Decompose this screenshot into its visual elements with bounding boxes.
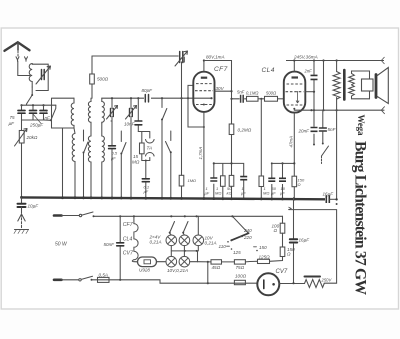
svg-text:45Ω: 45Ω [212,265,221,270]
svg-text:80pF: 80pF [142,88,154,93]
title [352,115,369,296]
5nF top-right chain [322,110,324,143]
svg-text:µF: µF [271,191,276,196]
potentiometer 20k [21,120,23,198]
electrolytic 10uF [18,204,26,207]
svg-text:250µF: 250µF [29,123,44,128]
bottom-left ground leg [14,198,29,234]
cap 80pF in rail [144,95,151,102]
switch S5 [166,131,171,199]
svg-text:47mA: 47mA [288,136,293,148]
svg-text:10V,0,21A: 10V,0,21A [167,268,188,273]
svg-text:20nF: 20nF [298,129,311,134]
svg-text:110: 110 [219,244,227,249]
TA pickup jacks [146,140,155,143]
speaker [362,79,374,91]
fuse 0,5A [98,277,110,282]
svg-text:16µF: 16µF [323,191,335,196]
switch S4 [162,98,167,198]
lamp La1 [166,235,177,246]
grid rail y=98 [102,97,212,99]
selector top chain [282,216,284,223]
svg-text:Wega: Wega [356,115,366,137]
svg-text:CL4: CL4 [262,67,275,74]
mains switch top [81,212,94,216]
mains switch bottom [80,276,93,280]
svg-text:kΩ: kΩ [227,191,232,196]
trimmer capacitor [42,70,45,80]
wave switch S1 [27,95,33,104]
grid leak jog [188,98,204,127]
resistor 150 ohm vertical [280,247,285,257]
CL4 grid drop [260,99,262,199]
transformer core [343,70,346,100]
svg-text:20kΩ: 20kΩ [26,135,38,140]
svg-text:500Ω: 500Ω [97,77,109,82]
resistor 500 ohm [90,74,95,84]
tube CL4 [284,72,306,113]
lamp links [171,246,184,257]
svg-text:U928: U928 [139,268,150,273]
lamp La3 [193,235,204,246]
svg-text:MΩ: MΩ [215,191,221,196]
wire B+ feed [323,61,325,111]
svg-text:16µF: 16µF [299,238,311,243]
svg-text:CF7: CF7 [123,222,134,228]
svg-text:245V,36mA: 245V,36mA [293,55,318,60]
svg-text:50 W: 50 W [55,242,68,248]
mains plug pin bottom [54,278,62,281]
svg-text:100Ω: 100Ω [235,274,247,279]
svg-text:MΩ: MΩ [132,160,140,165]
IF transformer coils [88,98,91,123]
svg-text:1: 1 [46,109,49,114]
svg-text:Ω: Ω [274,228,278,233]
capacitor 250uF [32,105,34,120]
svg-text:125: 125 [233,250,241,255]
line y163 right [283,162,295,164]
svg-text:10nF: 10nF [124,122,136,127]
node junctions on grid rail [111,97,113,99]
antenna coil L1 [29,64,32,88]
chassis arrow [21,214,23,228]
capacitor 0,1uF [145,161,147,199]
osc coil lower [72,128,75,199]
resistor 75 ohm [234,260,245,264]
wire B+ vertical to filter [336,110,338,199]
labels part 1 [9,77,154,141]
selector blade 240/220 [231,233,248,240]
ground bus [20,195,338,203]
16uF bus cap [326,195,329,203]
2nF cap chain [313,61,315,111]
dial lamps [166,235,204,267]
CF7 anode wire [203,61,205,72]
trimmer cap b [130,109,133,117]
secondary loop [349,71,370,85]
node row [22,104,56,105]
svg-text:10µF: 10µF [28,204,40,209]
capacitor 10uF cathode bypass [282,163,284,198]
resistor 1M grid leak [181,98,183,198]
antenna [5,42,30,51]
resistor 0,2MOhm [229,124,234,135]
wire rail to tuning cap [174,55,178,57]
labels part 2 [111,55,318,196]
screen wire [215,90,232,92]
CV7 rectifier [257,273,279,295]
heating resistor zigzag 250V [305,280,325,288]
resistor 15MOhm [140,143,145,154]
resistor 150 CL4 cathode [293,113,295,199]
padder switch [83,130,85,141]
shield rectangle [32,64,48,90]
svg-text:240: 240 [243,228,252,233]
svg-text:µF: µF [205,191,210,196]
resistor 1M cathode [222,163,224,198]
svg-text:75Ω: 75Ω [236,265,245,270]
CF7 grid wire [188,85,193,98]
trimmer cap a [111,109,114,117]
svg-text:TA: TA [147,146,153,151]
wire antenna to coil [18,61,29,76]
svg-text:80V,1mA: 80V,1mA [206,55,225,60]
electrolytic 50uF [271,163,273,198]
svg-text:220: 220 [243,235,252,240]
lamp switch a [170,222,175,236]
resistor 125 ohm [258,259,270,263]
svg-text:0,2MΩ: 0,2MΩ [238,128,252,133]
svg-text:µF: µF [280,191,285,196]
switch S3 [121,131,126,199]
resistor 100 ohm lower [234,280,245,284]
wire CF7 cathode to ground bus [203,112,205,199]
svg-text:µF: µF [144,189,149,194]
svg-text:CV7: CV7 [123,250,134,256]
svg-text:250V: 250V [321,278,333,283]
svg-text:5nF: 5nF [328,127,337,132]
capacitor 50nF across mains [119,216,121,279]
lamp La2 [179,235,190,246]
svg-text:µF: µF [111,156,116,161]
svg-text:2nF: 2nF [304,69,313,74]
svg-text:Ω: Ω [298,182,301,187]
svg-text:50nF: 50nF [104,242,116,247]
resistor 0,1MOhm [247,96,259,101]
svg-text:0,21A: 0,21A [150,240,162,245]
mains section [54,212,283,284]
svg-text:1,7mA: 1,7mA [198,147,203,160]
TA / 15M branch top [138,132,150,144]
capacitor 10nF [137,97,139,99]
capacitor 1uF [240,163,244,198]
capacitor 0,5uF [111,121,113,199]
capacitor 16uF vertical leg [293,198,295,284]
wire lower speaker rail [294,109,384,111]
output transformer primary [336,61,338,72]
5nF coupling cap [232,98,247,100]
switch S2 [51,105,56,120]
lamp La5 [179,256,190,267]
245V rail [286,60,384,62]
rail to 500ohm [92,55,174,57]
resistor 45 ohm [211,260,222,264]
ground symbol [15,229,29,231]
barretter U928 [138,257,157,267]
lamp switch b [183,222,188,236]
wire caps row to switch [44,119,51,121]
CL4 anode wire [293,61,295,72]
svg-text:1MΩ: 1MΩ [188,178,197,183]
20nF cap [313,110,315,144]
wire osc tap to ground bus [62,128,64,199]
capacitor 1nF [43,105,45,120]
svg-text:MΩ: MΩ [263,191,269,196]
svg-text:CV7: CV7 [276,269,288,275]
pointer line 250uF [33,114,41,124]
oscillator coil assembly [52,98,75,128]
wire node row y163 left [214,162,240,164]
svg-text:30V: 30V [216,86,225,91]
capacitor 75uF [21,105,23,120]
tone switch [322,146,329,156]
svg-text:µF: µF [241,191,246,196]
svg-text:0,1MΩ: 0,1MΩ [246,91,259,96]
svg-text:CL4: CL4 [123,237,133,243]
antenna sockets [16,57,28,61]
heater chain [132,216,165,266]
CL4 internal electrodes [287,83,303,85]
resistor 500 Ohm h [265,96,278,101]
svg-text:75: 75 [10,115,16,120]
wire switch to ground bus [83,153,85,199]
svg-text:15: 15 [133,154,139,159]
svg-text:0,5A: 0,5A [99,273,108,278]
svg-text:0,21A: 0,21A [205,241,217,246]
resistor 100 ohm vertical [280,223,285,233]
tube CF7 [193,72,214,112]
svg-text:500Ω: 500Ω [266,91,277,96]
anode rail 80V [204,61,232,125]
svg-text:Burg Lichtenstein 37 GW: Burg Lichtenstein 37 GW [352,141,369,295]
grid3 tie [188,110,204,127]
CF7 internal electrodes [196,83,212,85]
lamp La4 [166,256,177,267]
svg-text:150: 150 [259,245,267,250]
voltage selector [211,215,285,284]
mains plug pin top [54,214,62,217]
svg-text:CF7: CF7 [214,66,228,73]
wire resistor to coil [91,84,93,98]
svg-text:5nF: 5nF [237,90,245,95]
svg-text:125Ω: 125Ω [259,255,271,260]
svg-text:Ω: Ω [287,252,291,257]
selector feed [232,216,248,233]
selector labels [28,127,337,283]
